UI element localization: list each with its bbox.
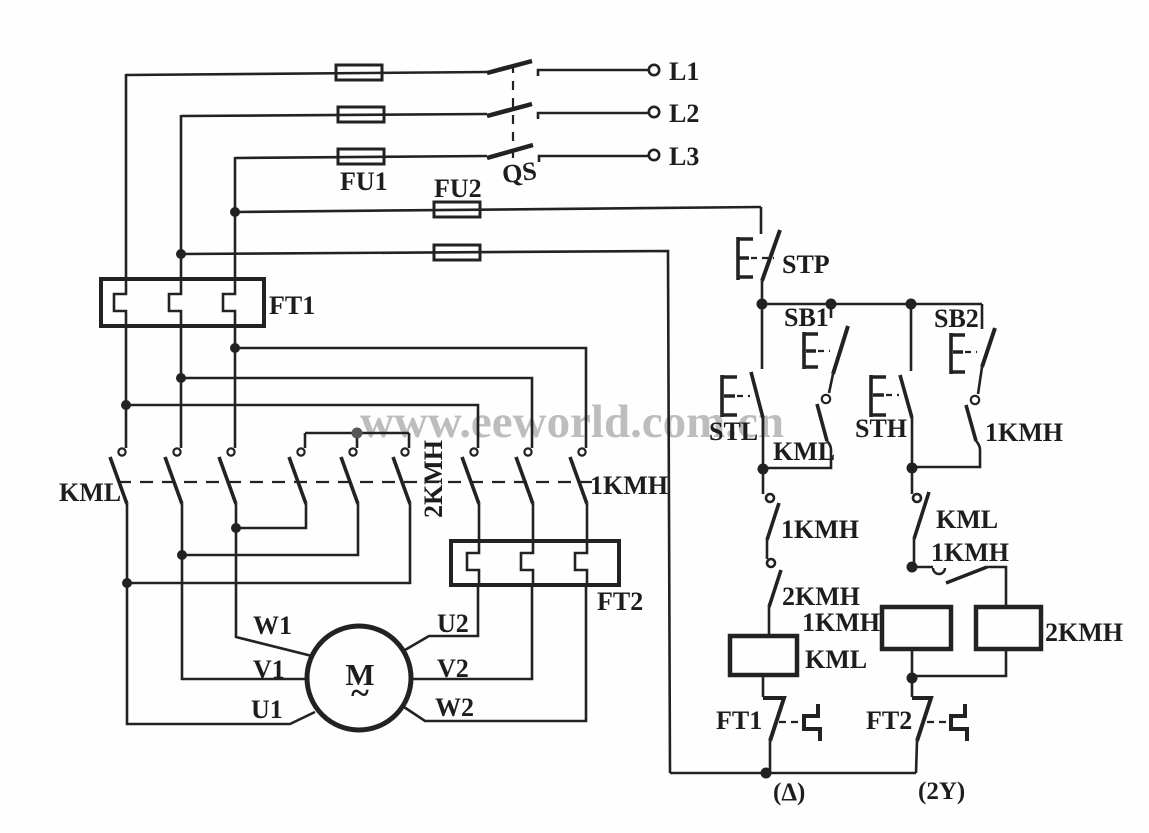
svg-text:L3: L3 (669, 142, 699, 171)
svg-text:1KMH: 1KMH (931, 538, 1009, 567)
svg-text:SB2: SB2 (934, 304, 979, 333)
svg-text:U1: U1 (251, 695, 283, 724)
svg-text:2KMH: 2KMH (782, 582, 860, 611)
svg-text:STL: STL (709, 417, 758, 446)
svg-text:KML: KML (59, 478, 121, 507)
svg-text:2KMH: 2KMH (1045, 618, 1123, 647)
svg-text:1KMH: 1KMH (802, 608, 880, 637)
svg-text:(2Y): (2Y) (918, 778, 965, 805)
svg-text:(Δ): (Δ) (773, 779, 805, 806)
svg-text:L2: L2 (669, 99, 699, 128)
svg-text:FT2: FT2 (866, 706, 912, 735)
svg-text:STP: STP (782, 250, 830, 279)
svg-text:~: ~ (351, 675, 369, 712)
svg-text:U2: U2 (437, 609, 469, 638)
svg-text:QS: QS (500, 156, 538, 189)
svg-text:KML: KML (773, 437, 835, 466)
svg-text:V2: V2 (437, 654, 469, 683)
svg-text:L1: L1 (669, 57, 699, 86)
svg-text:W1: W1 (253, 611, 292, 640)
svg-text:1KMH: 1KMH (985, 418, 1063, 447)
svg-text:2KMH: 2KMH (419, 440, 448, 518)
svg-text:KML: KML (805, 645, 867, 674)
svg-text:FT1: FT1 (716, 706, 762, 735)
svg-text:FT1: FT1 (269, 291, 315, 320)
svg-text:STH: STH (855, 414, 907, 443)
svg-text:FT2: FT2 (597, 587, 643, 616)
svg-text:V1: V1 (253, 655, 285, 684)
svg-text:1KMH: 1KMH (781, 515, 859, 544)
svg-text:SB1: SB1 (784, 303, 829, 332)
svg-text:W2: W2 (435, 693, 474, 722)
svg-text:KML: KML (936, 505, 998, 534)
svg-text:FU1: FU1 (340, 167, 388, 196)
svg-text:FU2: FU2 (434, 174, 482, 203)
svg-text:1KMH: 1KMH (590, 471, 668, 500)
